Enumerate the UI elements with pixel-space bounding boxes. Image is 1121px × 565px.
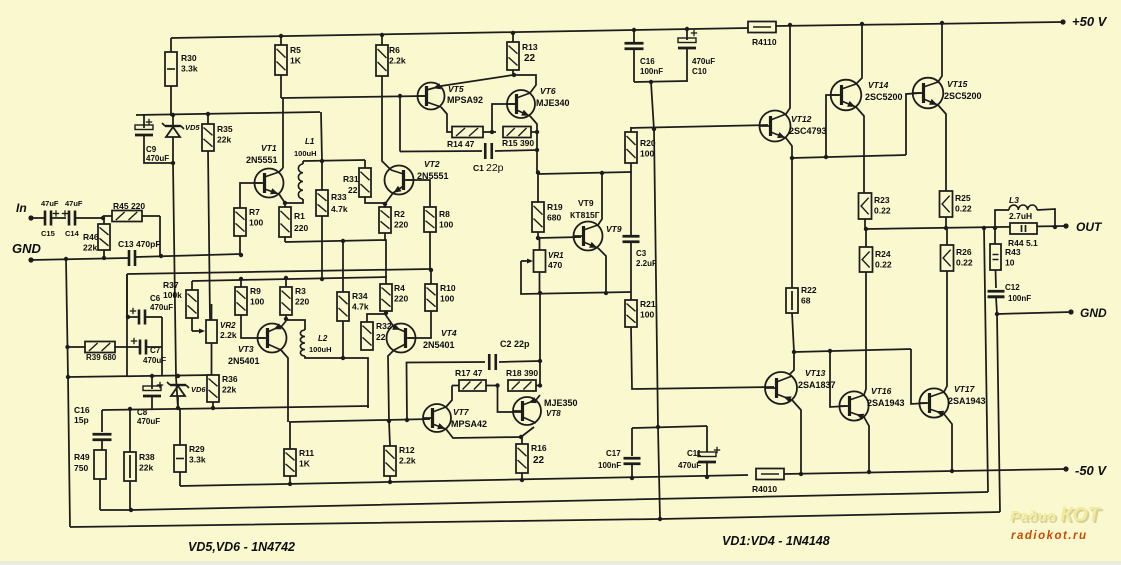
label VT6	[540, 86, 556, 96]
resistor R39	[85, 342, 139, 353]
wire C8 top lead	[151, 377, 153, 389]
svg-text:C14: C14	[65, 229, 80, 238]
svg-text:Радио КОТ: Радио КОТ	[1010, 504, 1102, 526]
wire VR1-VT8 column	[539, 294, 541, 385]
node feedback tap	[982, 226, 986, 230]
node VR1 bottom	[538, 291, 542, 295]
resistor R3	[280, 278, 292, 321]
node decouple-base cross	[652, 127, 656, 131]
wire VT8 emitter	[536, 395, 540, 400]
label R8	[439, 209, 453, 230]
node R46 bottom	[102, 256, 106, 260]
label C17	[606, 449, 621, 458]
svg-text:1K: 1K	[299, 459, 311, 469]
plus C8	[157, 382, 163, 388]
wire R31 bottom	[365, 197, 385, 203]
node VT3 emitter	[284, 317, 288, 321]
svg-text:100nF: 100nF	[640, 67, 663, 76]
logo Radio KOT	[1010, 504, 1104, 528]
svg-text:C1: C1	[473, 163, 484, 173]
label C3	[636, 249, 657, 268]
label VT5 type	[447, 95, 483, 105]
label C1 value	[486, 162, 504, 174]
inductor L3	[1009, 205, 1037, 210]
wire VT7 emitter	[446, 429, 521, 438]
wire VT17 collector	[944, 271, 947, 392]
label R25	[955, 193, 972, 214]
terminal GND right	[1068, 309, 1073, 314]
svg-text:100: 100	[640, 310, 654, 320]
label R2	[394, 209, 408, 230]
wire R21 to VT13 base	[631, 327, 774, 389]
svg-text:4.7k: 4.7k	[331, 204, 348, 214]
wire line377	[68, 375, 213, 377]
label R32	[376, 321, 392, 331]
wire C7 right lead	[146, 346, 162, 348]
node R12 bottom	[388, 480, 392, 484]
svg-text:R7: R7	[249, 207, 260, 217]
svg-text:L2: L2	[318, 334, 328, 343]
node VT13 em rail	[799, 472, 803, 476]
svg-text:100: 100	[640, 149, 654, 159]
svg-text:0.22: 0.22	[874, 206, 891, 216]
label R23	[874, 195, 891, 216]
label R43	[1005, 247, 1021, 268]
wire VT16 collector	[864, 272, 866, 395]
svg-text:C17: C17	[606, 449, 621, 458]
wire C12 mid	[988, 295, 1004, 298]
label R45	[113, 201, 145, 211]
svg-text:MJE350: MJE350	[544, 398, 578, 408]
svg-text:C6: C6	[150, 294, 161, 303]
svg-text:22: 22	[348, 185, 358, 195]
svg-text:R4010: R4010	[752, 484, 777, 494]
svg-text:OUT: OUT	[1076, 220, 1103, 234]
node R16 top	[519, 435, 523, 439]
node R19 bottom	[536, 236, 540, 240]
svg-text:2.2k: 2.2k	[389, 56, 406, 66]
wire VT7 collector	[446, 386, 452, 408]
svg-text:R38: R38	[139, 452, 155, 462]
svg-text:100nF: 100nF	[598, 461, 621, 470]
resistor R17	[452, 380, 498, 391]
wire R32 top	[367, 314, 386, 322]
label GND	[12, 241, 42, 256]
svg-text:R33: R33	[331, 192, 347, 202]
label -50 V	[1075, 463, 1107, 478]
wire VT6 base	[492, 104, 515, 132]
capacitor C13	[129, 250, 135, 266]
node rail-R13	[511, 31, 515, 35]
svg-text:2SA1943: 2SA1943	[948, 396, 986, 406]
wire rail to L1 node	[321, 112, 322, 161]
node R25R26	[944, 226, 948, 230]
label VT14	[868, 80, 889, 90]
label C9	[146, 145, 169, 163]
label VT1	[261, 143, 277, 153]
label VT4 type	[423, 340, 455, 350]
plus C11	[714, 447, 720, 453]
resistor R24	[860, 229, 873, 272]
node L3 right	[1053, 225, 1057, 229]
capacitor C3	[623, 236, 640, 242]
svg-text:100: 100	[440, 294, 454, 304]
resistor R9	[235, 279, 247, 315]
svg-text:R10: R10	[440, 283, 456, 293]
label C15 top	[41, 199, 59, 208]
wire VT9 emitter	[598, 248, 606, 293]
label VT17	[954, 384, 976, 394]
svg-text:VT12: VT12	[791, 114, 812, 124]
node VT13 collector branch	[792, 350, 796, 354]
node R33 bottom	[320, 277, 324, 281]
wire C8 bottom lead	[151, 397, 153, 409]
wire VT5 emitter	[441, 107, 452, 132]
node rail-VT14	[860, 22, 864, 26]
svg-text:470uF: 470uF	[150, 303, 173, 312]
svg-text:R25: R25	[955, 193, 971, 203]
svg-text:22k: 22k	[217, 135, 231, 145]
svg-text:68: 68	[801, 296, 811, 306]
transistor VT14	[831, 80, 862, 111]
wire C2 line	[407, 362, 486, 363]
svg-text:2.2k: 2.2k	[399, 456, 416, 466]
node rail-R5	[279, 34, 283, 38]
resistor R38	[124, 409, 136, 510]
node R43 tap	[993, 226, 997, 230]
label R30	[181, 53, 198, 74]
svg-text:VT2: VT2	[424, 159, 440, 169]
resistor R36	[207, 375, 219, 409]
label VT8	[546, 409, 561, 418]
transistor VT3	[258, 323, 287, 352]
wire zener rail	[136, 112, 320, 115]
wire node B line	[136, 254, 241, 257]
terminal In	[28, 215, 33, 220]
label R15	[502, 138, 534, 148]
svg-text:VR2: VR2	[220, 321, 236, 330]
resistor R7	[234, 208, 246, 255]
label C12	[1005, 283, 1020, 292]
transistor VT12	[760, 111, 791, 142]
svg-text:R13: R13	[522, 42, 538, 52]
wire R1R2 bottom line	[285, 240, 386, 278]
svg-text:R39 680: R39 680	[86, 353, 117, 362]
node C6 left	[126, 315, 130, 319]
wire VT8 base	[498, 386, 522, 413]
svg-text:R23: R23	[874, 195, 890, 205]
label VT16	[871, 386, 892, 396]
label C14	[65, 229, 80, 238]
transistor VT15	[913, 78, 944, 109]
node R34 top	[341, 239, 345, 243]
resistor R29	[174, 408, 186, 486]
label VT14 type	[865, 92, 903, 102]
wire VT17 emitter	[944, 414, 952, 471]
potentiometer VR2	[206, 304, 217, 376]
wire C9 top lead	[143, 115, 145, 128]
svg-text:VT7: VT7	[453, 407, 470, 417]
node R9 top	[239, 277, 243, 281]
node VT5 base tap	[398, 94, 402, 98]
node VT1 emitter	[283, 201, 287, 205]
svg-text:R34: R34	[352, 291, 368, 301]
resistor R6	[376, 35, 388, 76]
svg-text:VD5: VD5	[185, 123, 200, 132]
transistor VT6	[507, 90, 535, 118]
wire C1 line left	[400, 150, 482, 153]
wire C2 right	[499, 361, 540, 362]
node input R	[101, 216, 105, 220]
wire R7 to VT1 base	[240, 183, 262, 208]
svg-text:L3: L3	[1009, 195, 1019, 205]
node R3 top	[284, 276, 288, 280]
node R35 top	[206, 112, 210, 116]
node C12 gnd	[995, 312, 999, 316]
transistor VT2	[385, 166, 414, 205]
label VT17 type	[948, 396, 986, 406]
node lineC fb	[658, 517, 662, 521]
svg-text:100: 100	[439, 220, 453, 230]
transistor VT17	[919, 388, 948, 417]
transistor VT9	[574, 222, 603, 251]
wire R35 to VR2	[208, 151, 210, 320]
wire VT16 base	[830, 351, 847, 407]
node GND-377	[66, 375, 70, 379]
wire L1 top	[302, 161, 304, 164]
label R19	[547, 202, 563, 223]
label R1	[294, 211, 308, 233]
svg-text:2.2k: 2.2k	[220, 330, 237, 340]
label VT1 type	[246, 155, 278, 165]
wire +50V rail right of R41	[776, 22, 1063, 26]
label C11	[687, 449, 702, 458]
svg-text:GND: GND	[1080, 306, 1107, 320]
label L2 value	[309, 345, 332, 354]
svg-text:100nF: 100nF	[1008, 294, 1031, 303]
resistor R14	[452, 127, 496, 138]
svg-text:VD1:VD4 - 1N4148: VD1:VD4 - 1N4148	[722, 534, 830, 548]
svg-text:C3: C3	[636, 249, 647, 258]
node VD5 top	[171, 113, 175, 117]
svg-text:VT15: VT15	[947, 79, 968, 89]
wire C2 left drop	[406, 363, 409, 421]
capacitor C10	[678, 38, 696, 48]
note VD1 VD4	[722, 534, 830, 548]
wire OUT line	[866, 226, 1066, 229]
svg-text:100k: 100k	[163, 290, 182, 300]
label R6	[389, 45, 406, 66]
wiper VR2	[192, 329, 205, 334]
svg-text:R4110: R4110	[752, 37, 777, 47]
label R39	[86, 353, 117, 362]
node L1 top	[320, 159, 324, 163]
svg-text:-50 V: -50 V	[1075, 463, 1107, 478]
node R7 bottom	[239, 253, 243, 257]
svg-text:C10: C10	[692, 67, 707, 76]
note VD5 VD6	[188, 540, 295, 554]
svg-text:220: 220	[295, 297, 309, 307]
svg-text:R16: R16	[531, 443, 547, 453]
svg-text:2.7uH: 2.7uH	[1009, 211, 1032, 221]
svg-text:750: 750	[74, 463, 88, 473]
node R12 top	[387, 419, 391, 423]
node R39 left	[65, 345, 69, 349]
resistor R13	[507, 33, 519, 75]
svg-text:R45 220: R45 220	[113, 201, 145, 211]
label VD6	[191, 385, 206, 394]
node R15 right	[535, 130, 539, 134]
wire VT4-VT7 base line	[289, 419, 430, 422]
label R31	[343, 174, 359, 184]
resistor R32	[361, 322, 373, 350]
label VT9 type	[570, 210, 600, 220]
label R5	[290, 45, 302, 66]
resistor R15	[503, 127, 537, 138]
resistor R34	[337, 241, 349, 358]
svg-text:VT16: VT16	[871, 386, 892, 396]
svg-text:R6: R6	[389, 45, 400, 55]
wire C1 line right	[495, 150, 537, 151]
node R34 bottom	[341, 356, 345, 360]
svg-text:VT17: VT17	[954, 384, 976, 394]
wire lineB	[100, 492, 988, 510]
wire GND right line	[997, 312, 1071, 314]
resistor R5	[275, 36, 287, 98]
label VT2 type	[417, 171, 449, 181]
wire VT4 collector	[388, 350, 394, 446]
node R45 join	[159, 254, 163, 258]
wire VT16VT17 base line	[794, 349, 911, 352]
svg-text:470uF: 470uF	[137, 417, 160, 426]
svg-text:VT9: VT9	[578, 198, 594, 208]
svg-text:2SA1837: 2SA1837	[798, 380, 836, 390]
wire VT12 emitter	[786, 138, 792, 158]
capacitor C17	[624, 458, 641, 464]
node R38 top	[128, 407, 132, 411]
label R49	[74, 452, 90, 473]
resistor R33	[316, 161, 328, 279]
wire VT12 base line	[631, 125, 768, 128]
svg-text:VT1: VT1	[261, 143, 277, 153]
capacitor C16b	[93, 434, 112, 440]
wire -50V rail	[784, 469, 1066, 474]
node R4 bottom	[384, 311, 388, 315]
svg-text:0.22: 0.22	[956, 258, 973, 268]
wire VT5 collector	[441, 75, 513, 86]
node R11 bottom	[288, 482, 292, 486]
wiper VR1	[521, 259, 533, 264]
wire lineC	[70, 512, 1000, 527]
wire L3 loop R	[1037, 209, 1055, 227]
label R26	[956, 247, 973, 268]
resistor R23	[859, 193, 872, 229]
svg-text:100: 100	[249, 218, 263, 228]
svg-text:VD5,VD6 - 1N4742: VD5,VD6 - 1N4742	[188, 540, 295, 554]
transistor VT16	[839, 391, 868, 420]
wire C17 bottom	[631, 464, 633, 478]
label VT12 type	[789, 126, 827, 136]
transistor VT7	[423, 404, 451, 432]
svg-text:VT9: VT9	[606, 224, 622, 234]
svg-text:C11: C11	[687, 449, 702, 458]
diode VD6	[167, 382, 189, 396]
resistor R10	[425, 270, 437, 311]
wire VT5 base drop	[399, 96, 401, 152]
node C11 bottom	[705, 475, 709, 479]
wire C6 left vertical	[126, 274, 128, 317]
label C13	[118, 239, 161, 249]
wire C16a bottom	[633, 49, 635, 82]
label VT3 type	[228, 356, 260, 366]
wire VT17 base	[911, 349, 927, 404]
svg-text:R9: R9	[250, 286, 261, 296]
label R35	[217, 124, 233, 145]
wire R45 down	[159, 216, 161, 256]
label R32 value	[376, 332, 386, 342]
label VT6 type	[536, 98, 570, 108]
svg-text:22: 22	[524, 53, 536, 64]
node rail-C10	[685, 27, 689, 31]
resistor R1	[279, 203, 291, 242]
svg-text:220: 220	[394, 220, 408, 230]
resistor R21	[625, 300, 637, 327]
label R21	[640, 299, 656, 320]
svg-text:3.3k: 3.3k	[189, 455, 206, 465]
label VR1	[548, 251, 564, 260]
node VT9 collector top	[600, 171, 604, 175]
label R18	[506, 368, 538, 378]
svg-text:22k: 22k	[222, 385, 236, 395]
svg-text:47uF: 47uF	[41, 199, 59, 208]
wire VT13 emitter	[792, 400, 801, 474]
wire VT3 collector	[281, 350, 288, 422]
node VT9 emitter bottom	[604, 291, 608, 295]
wire R5 node line	[281, 96, 425, 98]
node VT7 base	[405, 418, 409, 422]
resistor R18	[508, 380, 540, 391]
svg-text:0.22: 0.22	[955, 204, 972, 214]
svg-text:R8: R8	[439, 209, 450, 219]
wire C17C11 top line	[632, 426, 707, 428]
wire VR1 wiper down	[521, 261, 631, 294]
wire VT9 base	[538, 237, 581, 238]
wire GND vertical	[66, 259, 70, 527]
resistor R43	[990, 244, 1001, 270]
svg-text:0.22: 0.22	[875, 260, 892, 270]
node rail-VT12	[788, 23, 792, 27]
node R8-R10	[429, 268, 433, 272]
resistor R46	[98, 218, 110, 258]
svg-text:КТ815Г: КТ815Г	[570, 210, 600, 220]
label R12	[399, 445, 416, 466]
resistor R12	[384, 446, 396, 482]
label C10	[692, 57, 715, 76]
node C9 return	[171, 161, 175, 165]
inductor L1	[298, 164, 303, 199]
label R16 value	[533, 455, 545, 466]
capacitor C7	[140, 340, 146, 355]
svg-text:+50 V: +50 V	[1072, 14, 1108, 29]
label R14	[447, 139, 475, 149]
node VT17 em rail	[950, 469, 954, 473]
resistor R4010	[756, 469, 784, 480]
label VT7	[453, 407, 470, 417]
resistor R19	[532, 174, 544, 238]
terminal OUT	[1063, 223, 1068, 228]
wire R22-VT13	[789, 313, 794, 375]
plus C10	[691, 30, 697, 36]
